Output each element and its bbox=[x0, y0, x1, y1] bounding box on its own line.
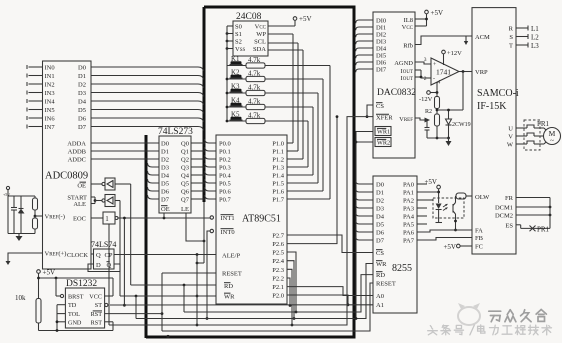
potentiometer R2 bbox=[415, 109, 440, 139]
watermark text bbox=[489, 311, 501, 322]
svg-text:VCC: VCC bbox=[402, 24, 414, 31]
svg-text:RD: RD bbox=[224, 283, 233, 290]
svg-text:ST: ST bbox=[95, 302, 102, 309]
svg-text:ADC0809: ADC0809 bbox=[45, 171, 88, 182]
wire G2 input from WR net bbox=[115, 201, 120, 297]
svg-text:P1.2: P1.2 bbox=[272, 157, 284, 164]
wire WP SCL SDA to risers bbox=[268, 34, 303, 50]
op-amp U10 1741 bbox=[424, 57, 459, 86]
wire U V W to motor with thermal elements bbox=[516, 125, 544, 144]
dac WR1 WR2 boxed labels bbox=[375, 127, 391, 147]
svg-text:GND: GND bbox=[68, 319, 82, 326]
svg-text:P0.2: P0.2 bbox=[219, 157, 231, 164]
svg-text:Q7: Q7 bbox=[181, 197, 190, 204]
svg-text:P0.6: P0.6 bbox=[219, 189, 231, 196]
wire K2 to P1 riser bbox=[265, 78, 323, 80]
svg-text:WR2: WR2 bbox=[377, 140, 390, 147]
switch K3 bbox=[226, 83, 246, 95]
svg-text:4: 4 bbox=[438, 80, 441, 86]
svg-text:DCM1: DCM1 bbox=[495, 205, 513, 212]
svg-text:P2.2: P2.2 bbox=[272, 276, 284, 283]
svg-text:S1: S1 bbox=[235, 31, 242, 38]
AT89C51 INT pins bbox=[210, 215, 234, 236]
svg-text:ALE/P: ALE/P bbox=[222, 253, 240, 260]
AT89C51 P1 pins bbox=[272, 141, 284, 204]
wire RESET net from DS1232 bbox=[161, 273, 216, 315]
svg-text:+5V: +5V bbox=[443, 243, 456, 251]
wire 24C08 select pins to key rail bbox=[226, 26, 233, 121]
svg-text:CLOCK: CLOCK bbox=[67, 252, 89, 259]
svg-text:P1.0: P1.0 bbox=[272, 141, 284, 148]
power +5V to FC bbox=[443, 243, 472, 251]
svg-text:IN6: IN6 bbox=[45, 116, 56, 123]
svg-text:VCC: VCC bbox=[89, 294, 102, 301]
svg-text:TD: TD bbox=[68, 302, 77, 309]
resistor R6 10k bbox=[15, 294, 113, 331]
svg-text:FR1: FR1 bbox=[537, 120, 550, 128]
svg-text:+5V: +5V bbox=[299, 15, 312, 23]
ADC0809 IN0-IN7 pin labels and input wires bbox=[27, 65, 55, 132]
resistor Rb bbox=[33, 218, 38, 229]
wire G1 input from RD net bbox=[115, 184, 131, 285]
wire P2.3 lane bbox=[287, 269, 293, 326]
svg-text:P2.0: P2.0 bbox=[272, 293, 284, 300]
switch K4 bbox=[226, 97, 246, 109]
svg-text:WR: WR bbox=[376, 261, 387, 268]
wire Vref+ to ground stub bbox=[6, 253, 43, 265]
svg-text:P1.3: P1.3 bbox=[272, 165, 284, 172]
wire hooks bus to DAC DI0-DI7 bbox=[356, 20, 373, 72]
svg-text:RESET: RESET bbox=[222, 271, 242, 278]
svg-text:Q1: Q1 bbox=[181, 149, 189, 156]
svg-text:OE: OE bbox=[161, 206, 170, 213]
resistor Ra bbox=[33, 198, 38, 210]
svg-text:D4: D4 bbox=[161, 173, 170, 180]
svg-text:RST: RST bbox=[91, 319, 103, 326]
svg-text:Q: Q bbox=[96, 252, 101, 259]
ground of divider bbox=[7, 196, 9, 234]
op-amp U? none; ADC0809 U1 box bbox=[43, 61, 92, 269]
svg-text:LE: LE bbox=[181, 206, 189, 213]
svg-text:SCL: SCL bbox=[254, 39, 266, 46]
svg-text:CP: CP bbox=[105, 252, 113, 259]
svg-text:P0.3: P0.3 bbox=[219, 165, 231, 172]
svg-text:PR1: PR1 bbox=[537, 226, 550, 234]
svg-text:ADDA: ADDA bbox=[67, 141, 86, 148]
svg-text:IN4: IN4 bbox=[45, 99, 56, 106]
wire staircase P1.0-P1.7 risers bbox=[287, 34, 330, 199]
svg-text:Q2: Q2 bbox=[181, 157, 189, 164]
switch K1 bbox=[227, 55, 246, 66]
wire RD net bbox=[131, 284, 216, 312]
svg-text:IOUT: IOUT bbox=[401, 68, 413, 75]
wire FR DCM nets bbox=[516, 198, 551, 229]
svg-text:S: S bbox=[509, 34, 513, 41]
AT89C51 P0 pins bbox=[205, 139, 232, 204]
svg-text:D5: D5 bbox=[161, 181, 169, 188]
svg-text:PA0: PA0 bbox=[403, 182, 414, 189]
svg-text:+5V: +5V bbox=[431, 9, 444, 17]
switch K5 bbox=[226, 111, 246, 123]
svg-text:W: W bbox=[507, 142, 514, 149]
svg-text:Q5: Q5 bbox=[181, 181, 189, 188]
svg-text:AGND: AGND bbox=[394, 60, 413, 67]
svg-text:D0: D0 bbox=[161, 141, 169, 148]
svg-text:INT1: INT1 bbox=[221, 215, 235, 222]
wire bottom lane RD to 8255 bbox=[184, 275, 373, 312]
wire P2.0 to A1 lane bbox=[287, 295, 349, 306]
resistor R7 to OLW bbox=[456, 193, 473, 199]
ppi 8255 U8 bbox=[373, 176, 417, 313]
svg-text:L2: L2 bbox=[531, 34, 539, 42]
wire ALE vertical to XFER lane bbox=[196, 255, 199, 327]
svg-text:P0.0: P0.0 bbox=[219, 141, 231, 148]
svg-text:ADDB: ADDB bbox=[68, 149, 87, 156]
svg-text:FC: FC bbox=[475, 244, 483, 251]
svg-text:OE: OE bbox=[77, 183, 86, 190]
wire P2.1 to 8255 A0 bbox=[287, 287, 373, 296]
svg-text:D: D bbox=[96, 262, 101, 269]
svg-text:ALE: ALE bbox=[73, 201, 86, 208]
svg-text:L3: L3 bbox=[531, 42, 539, 50]
svg-text:PA5: PA5 bbox=[403, 222, 414, 229]
voltage reference divider network bbox=[3, 186, 43, 241]
svg-text:D1: D1 bbox=[161, 149, 169, 156]
svg-text:RST: RST bbox=[91, 311, 103, 318]
svg-text:L1: L1 bbox=[531, 25, 539, 33]
wire K3 to P1 riser bbox=[265, 92, 318, 94]
svg-text:PA4: PA4 bbox=[403, 214, 415, 221]
wire 74LS273 LE net bbox=[186, 202, 205, 264]
inverter SAMCO-i IF-15K U11 bbox=[472, 8, 519, 254]
wire P2.6 riser to XFER net bbox=[287, 115, 338, 243]
svg-text:DI1: DI1 bbox=[376, 25, 386, 32]
wire 74LS273 Q outputs to P0 bus bbox=[191, 142, 205, 201]
svg-text:Q0: Q0 bbox=[181, 141, 189, 148]
svg-text:CS: CS bbox=[376, 103, 384, 110]
svg-text:PA6: PA6 bbox=[403, 230, 415, 237]
motor M1 bbox=[544, 128, 561, 146]
svg-text:CS: CS bbox=[376, 250, 384, 257]
svg-text:10k: 10k bbox=[15, 294, 26, 302]
svg-text:S2: S2 bbox=[235, 39, 242, 46]
resistor R3 bbox=[435, 72, 464, 115]
svg-text:P0.5: P0.5 bbox=[219, 181, 231, 188]
svg-text:BRST: BRST bbox=[68, 294, 84, 301]
capacitor C1 bbox=[13, 196, 15, 207]
svg-text:DI7: DI7 bbox=[376, 67, 387, 74]
wire WR net bbox=[120, 295, 216, 319]
svg-text:P2.4: P2.4 bbox=[272, 258, 284, 265]
ADC0809 control pins OE START ALE EOC CLOCK Vref bbox=[45, 182, 89, 259]
svg-text:IN7: IN7 bbox=[45, 124, 56, 131]
svg-text:DI4: DI4 bbox=[376, 46, 387, 53]
svg-text:RD: RD bbox=[376, 272, 385, 279]
latch 74LS273 U2 bbox=[158, 127, 193, 213]
buffer gate G3 (EOC to INT1) bbox=[91, 212, 118, 224]
svg-text:DAC0832: DAC0832 bbox=[377, 88, 416, 98]
svg-text:P2.5: P2.5 bbox=[272, 250, 284, 257]
wire P2.7 to 8255 CS bbox=[287, 235, 373, 253]
wire INT0 to bottom lane bbox=[206, 231, 211, 320]
svg-text:D2: D2 bbox=[376, 198, 384, 205]
buffer gate G2 (START/ALE driver) bbox=[91, 195, 115, 207]
svg-text:D4: D4 bbox=[78, 99, 87, 106]
svg-text:WP: WP bbox=[256, 31, 266, 38]
svg-text:VREF: VREF bbox=[399, 116, 413, 123]
svg-text:IL8: IL8 bbox=[404, 17, 413, 24]
svg-text:+12V: +12V bbox=[447, 50, 462, 57]
svg-text:P2.1: P2.1 bbox=[272, 284, 284, 291]
svg-text:PA1: PA1 bbox=[403, 190, 414, 197]
resistor R4 4.7k bbox=[246, 98, 265, 110]
wire P2.2 lane bbox=[287, 278, 291, 307]
svg-text:Q3: Q3 bbox=[181, 165, 189, 172]
svg-text:1: 1 bbox=[105, 215, 109, 223]
wire ALE/P to 74LS74 CP bbox=[114, 253, 216, 256]
wire 8255 PA stubs bbox=[417, 184, 427, 224]
svg-text:74LS74: 74LS74 bbox=[91, 240, 116, 249]
wire DAC CS hook to XFER net bbox=[366, 105, 373, 118]
wire branch EOC net to bottom lane bbox=[123, 217, 126, 307]
wire opto LED cathode bbox=[436, 218, 443, 223]
svg-text:IN0: IN0 bbox=[45, 65, 55, 72]
svg-text:IN1: IN1 bbox=[45, 73, 55, 80]
svg-text:P2.3: P2.3 bbox=[272, 267, 284, 274]
power +12V bbox=[442, 50, 462, 65]
svg-text:D2: D2 bbox=[78, 82, 86, 89]
ADC0809 ADDA ADDB ADDC pins and wires to latch bus bbox=[67, 141, 159, 164]
svg-text:S0: S0 bbox=[235, 24, 242, 31]
switch K2 bbox=[226, 69, 246, 81]
ADC0809 D0-D7 pin labels bbox=[78, 65, 87, 132]
resistor R2 4.7k bbox=[246, 70, 265, 82]
svg-text:2CW19: 2CW19 bbox=[452, 122, 471, 128]
svg-text:P1.5: P1.5 bbox=[272, 181, 284, 188]
zener D1 2CW19 bbox=[446, 109, 471, 140]
svg-text:ADDC: ADDC bbox=[68, 157, 86, 164]
wire DS1232 TD TOL GND bbox=[56, 305, 66, 332]
wire bottom lane ST to A1 bbox=[110, 304, 373, 306]
svg-text:DI6: DI6 bbox=[376, 60, 387, 67]
watermark logo bbox=[458, 303, 480, 325]
power +5V DAC bbox=[415, 9, 443, 26]
svg-text:P0.7: P0.7 bbox=[219, 197, 231, 204]
contactor FR1 dashed box bbox=[524, 120, 550, 150]
wire K1 to P1 riser bbox=[265, 65, 330, 67]
wire P2.5 lane bbox=[287, 252, 297, 313]
svg-text:AT89C51: AT89C51 bbox=[242, 214, 281, 225]
svg-text:DI5: DI5 bbox=[376, 53, 386, 60]
svg-text:P0.4: P0.4 bbox=[219, 173, 231, 180]
relay contact PR1 bbox=[516, 225, 550, 234]
wire RESET lane to 8255 bbox=[162, 283, 373, 331]
svg-text:D6: D6 bbox=[376, 230, 385, 237]
svg-text:DI2: DI2 bbox=[376, 32, 386, 39]
svg-text:IN5: IN5 bbox=[45, 107, 55, 114]
svg-text:D2: D2 bbox=[161, 157, 169, 164]
svg-text:V: V bbox=[508, 134, 513, 141]
wire hooks bus to 74LS273 D inputs bbox=[148, 163, 160, 199]
svg-text:VCC: VCC bbox=[255, 24, 267, 31]
wire K5 to P1 riser bbox=[265, 120, 308, 122]
wire Iout to op-amp - bbox=[415, 70, 431, 78]
svg-text:D6: D6 bbox=[161, 189, 170, 196]
svg-text:D4: D4 bbox=[376, 214, 385, 221]
wire AGND to op-amp + bbox=[415, 62, 431, 64]
svg-text:D1: D1 bbox=[78, 73, 86, 80]
svg-text:D0: D0 bbox=[376, 182, 384, 189]
wire P2.4 lane bbox=[287, 261, 295, 320]
svg-text:A1: A1 bbox=[376, 302, 384, 309]
wire DS1232 RST to RESET bbox=[105, 313, 162, 315]
optocoupler U9 bbox=[433, 198, 464, 218]
svg-text:A0: A0 bbox=[376, 293, 384, 300]
wire bus: ADC D0-D7 to P0 bus with hooks bbox=[91, 67, 203, 131]
svg-text:DCM2: DCM2 bbox=[495, 213, 513, 220]
ground analog rail bbox=[427, 138, 452, 146]
wire EOC/INT1 net bbox=[118, 216, 214, 220]
svg-text:RESET: RESET bbox=[376, 281, 396, 288]
svg-text:U: U bbox=[508, 126, 513, 133]
svg-text:2: 2 bbox=[424, 76, 427, 82]
svg-text:IN2: IN2 bbox=[45, 82, 55, 89]
svg-text:SDA: SDA bbox=[253, 46, 266, 53]
wire DS1232 ST output bbox=[105, 303, 108, 306]
svg-text:Q: Q bbox=[107, 262, 112, 269]
svg-text:IF-15K: IF-15K bbox=[477, 101, 507, 112]
svg-text:VSS: VSS bbox=[235, 46, 245, 53]
svg-text:D5: D5 bbox=[376, 222, 384, 229]
svg-text:R2: R2 bbox=[425, 109, 432, 115]
svg-text:P2.6: P2.6 bbox=[272, 241, 284, 248]
svg-text:8255: 8255 bbox=[392, 263, 412, 274]
resistor R5 4.7k bbox=[246, 112, 265, 124]
svg-text:D3: D3 bbox=[161, 165, 169, 172]
svg-text:D0: D0 bbox=[78, 65, 86, 72]
junction on bottom bus bbox=[166, 335, 169, 338]
svg-text:TOL: TOL bbox=[68, 311, 80, 318]
svg-text:~: ~ bbox=[550, 137, 554, 145]
svg-text:Rfb: Rfb bbox=[403, 43, 413, 50]
svg-text:XFER: XFER bbox=[376, 115, 393, 122]
flip-flop 74LS74 U5 bbox=[91, 240, 116, 269]
svg-text:DI3: DI3 bbox=[376, 39, 386, 46]
node Vref- tap bbox=[34, 215, 37, 218]
svg-text:WR: WR bbox=[224, 294, 235, 301]
svg-text:D3: D3 bbox=[78, 90, 86, 97]
svg-text:PA7: PA7 bbox=[403, 238, 415, 245]
svg-text:D7: D7 bbox=[376, 238, 385, 245]
wire G3 lower branch to bottom lane bbox=[108, 224, 110, 325]
resistor R3 4.7k bbox=[246, 84, 265, 96]
svg-text:VREF(+): VREF(+) bbox=[45, 251, 67, 258]
svg-text:P0.1: P0.1 bbox=[219, 149, 231, 156]
buffer gate G1 (OE driver) bbox=[91, 178, 115, 190]
AT89C51 control pins bbox=[222, 253, 242, 301]
wire 74LS273 OE to EOC net bbox=[163, 213, 165, 218]
capacitor C3 bbox=[425, 120, 430, 138]
svg-text:IN3: IN3 bbox=[45, 90, 55, 97]
svg-text:ACM: ACM bbox=[475, 34, 490, 41]
svg-text:P1.6: P1.6 bbox=[272, 189, 284, 196]
wire PA2 to opto bbox=[417, 199, 433, 201]
wire R S T to L1 L2 L3 bbox=[516, 25, 539, 50]
svg-text:EOC: EOC bbox=[73, 216, 86, 223]
svg-text:D3: D3 bbox=[376, 206, 384, 213]
capacitor C2 bbox=[20, 196, 22, 208]
svg-text:D6: D6 bbox=[78, 116, 87, 123]
wire opto emitter to FA bbox=[454, 218, 457, 231]
svg-text:IOUT: IOUT bbox=[401, 75, 413, 82]
svg-text:-: - bbox=[433, 76, 435, 82]
power +5V opto bbox=[417, 178, 440, 203]
svg-text:D5: D5 bbox=[78, 107, 86, 114]
wire K4 to P1 riser bbox=[265, 106, 313, 108]
power +5V DS1232 bbox=[37, 269, 113, 299]
microcontroller AT89C51 U3 bbox=[216, 135, 287, 304]
svg-text:D7: D7 bbox=[161, 197, 170, 204]
svg-text:VREF(-): VREF(-) bbox=[45, 214, 65, 221]
wire Rfb feedback to ACM bbox=[415, 36, 472, 45]
wire PA7 to FB bbox=[417, 238, 472, 241]
svg-text:FR: FR bbox=[505, 195, 514, 202]
wire op-amp pin4 to -12V bbox=[419, 82, 438, 103]
resistor R1 4.7k bbox=[246, 56, 265, 68]
svg-text:R: R bbox=[509, 26, 514, 33]
svg-text:Q6: Q6 bbox=[181, 189, 190, 196]
wire PA6 to FA bbox=[417, 230, 472, 232]
svg-text:VRP: VRP bbox=[475, 69, 488, 76]
power +5V for 24C08 bbox=[268, 15, 312, 26]
wire bottom lane WR to 8255 bbox=[136, 264, 373, 319]
svg-text:FB: FB bbox=[475, 235, 484, 242]
svg-text:D7: D7 bbox=[78, 124, 87, 131]
bus ring (thick border) bbox=[146, 6, 356, 339]
svg-text:T: T bbox=[509, 43, 513, 50]
svg-text:ES: ES bbox=[505, 222, 513, 229]
wire bottom lane XFER bbox=[109, 117, 373, 325]
svg-text:Q4: Q4 bbox=[181, 173, 190, 180]
svg-text:WR1: WR1 bbox=[377, 129, 390, 136]
wire 74LS74 feedback D-Qbar bbox=[88, 264, 120, 272]
svg-text:DI0: DI0 bbox=[376, 18, 386, 25]
wire WR1 WR2 riser bbox=[355, 132, 373, 320]
svg-text:1741: 1741 bbox=[436, 68, 451, 77]
svg-text:OLW: OLW bbox=[475, 194, 490, 201]
AT89C51 P2 pins bbox=[272, 233, 284, 300]
svg-text:P1.7: P1.7 bbox=[272, 197, 284, 204]
svg-text:INT0: INT0 bbox=[221, 229, 235, 236]
svg-text:D1: D1 bbox=[376, 190, 384, 197]
svg-text:-12V: -12V bbox=[419, 96, 433, 103]
svg-text:P1.1: P1.1 bbox=[272, 149, 284, 156]
wire hooks bus to 8255 D0-D7 bbox=[356, 181, 373, 240]
svg-text:+5V: +5V bbox=[43, 269, 56, 277]
svg-text:P1.4: P1.4 bbox=[272, 173, 284, 180]
svg-text:P2.7: P2.7 bbox=[272, 233, 284, 240]
eeprom 24C08 U4 bbox=[233, 12, 268, 56]
svg-text:PA3: PA3 bbox=[403, 206, 414, 213]
supervisor DS1232 U6 bbox=[65, 279, 104, 328]
svg-text:+5V: +5V bbox=[424, 178, 437, 186]
svg-text:PA2: PA2 bbox=[403, 198, 414, 205]
dac DAC0832 U7 bbox=[373, 12, 416, 158]
svg-text:SAMCO-i: SAMCO-i bbox=[477, 88, 519, 99]
svg-text:FA: FA bbox=[475, 228, 483, 235]
wire op-amp output to VRP bbox=[459, 70, 472, 73]
